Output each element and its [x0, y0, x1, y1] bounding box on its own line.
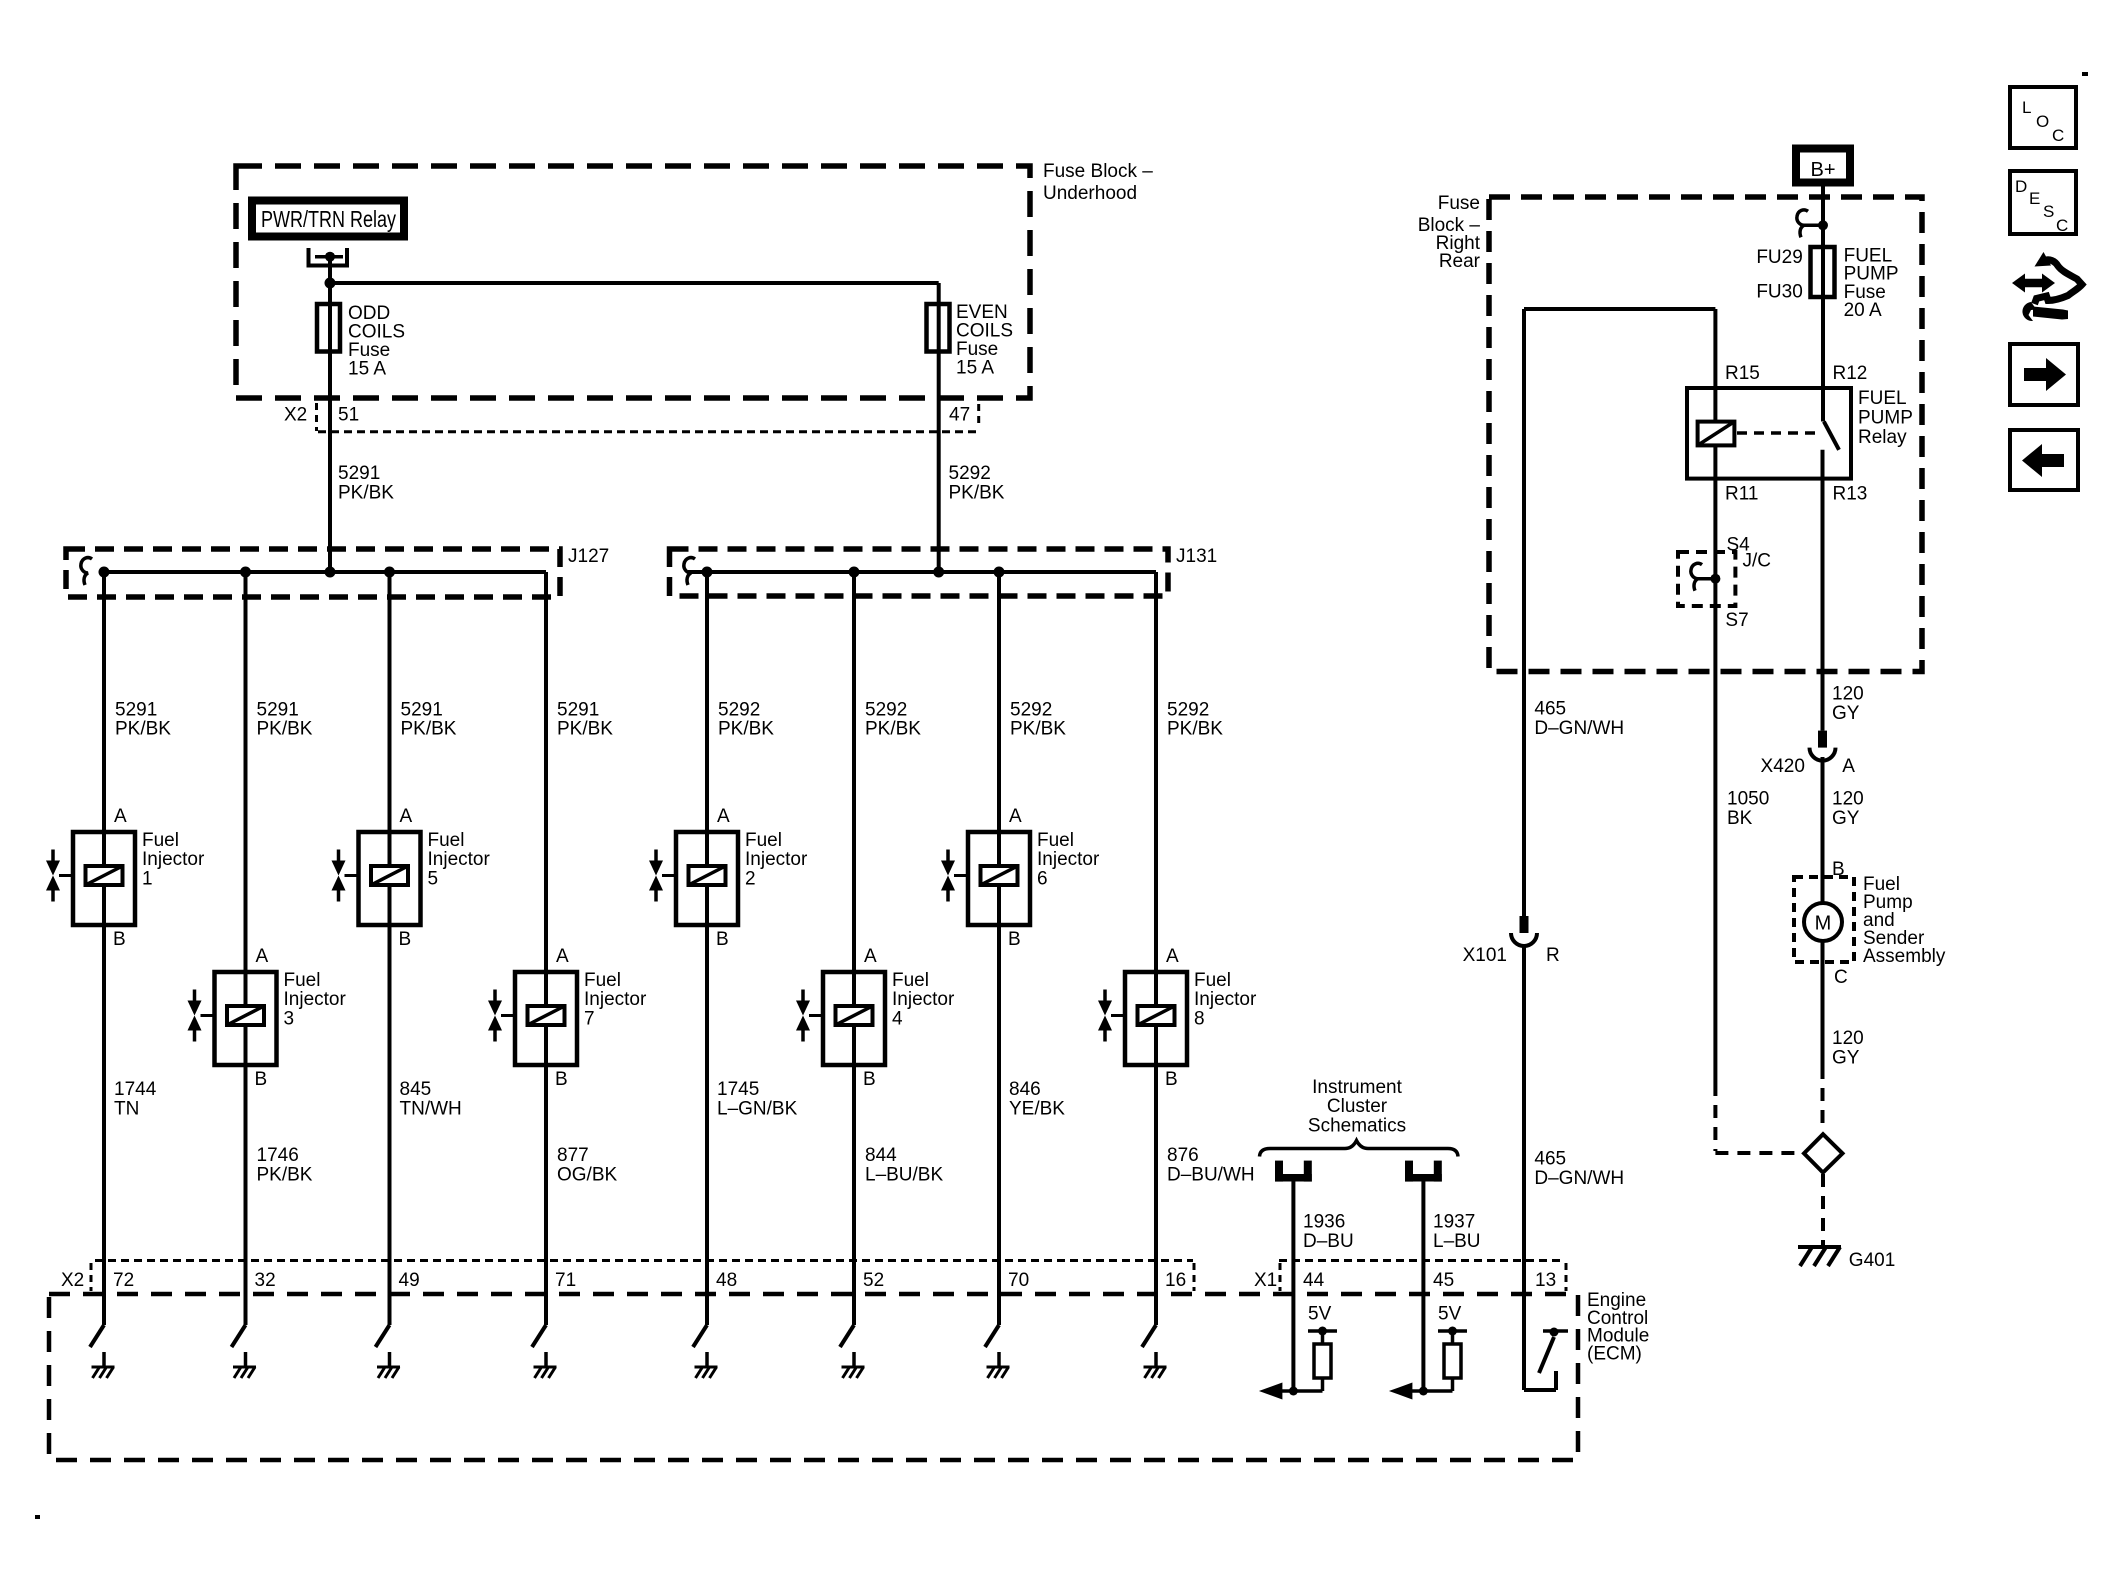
svg-text:B: B — [716, 929, 729, 950]
svg-text:Fuel: Fuel — [584, 970, 621, 991]
svg-text:44: 44 — [1303, 1270, 1325, 1291]
svg-text:PK/BK: PK/BK — [257, 719, 313, 740]
svg-text:PK/BK: PK/BK — [1167, 719, 1223, 740]
svg-text:Assembly: Assembly — [1863, 946, 1946, 967]
svg-text:A: A — [256, 946, 269, 967]
svg-text:5292: 5292 — [865, 700, 907, 721]
svg-text:844: 844 — [865, 1145, 897, 1166]
svg-text:Injector: Injector — [1037, 849, 1100, 870]
svg-text:B: B — [555, 1069, 568, 1090]
svg-text:845: 845 — [400, 1079, 432, 1100]
svg-text:B: B — [255, 1069, 268, 1090]
svg-text:8: 8 — [1194, 1008, 1205, 1029]
svg-text:B+: B+ — [1810, 159, 1835, 181]
svg-text:877: 877 — [557, 1145, 589, 1166]
svg-text:Injector: Injector — [584, 989, 647, 1010]
svg-text:B: B — [1165, 1069, 1178, 1090]
svg-text:A: A — [717, 806, 730, 827]
svg-text:GY: GY — [1832, 808, 1860, 829]
svg-text:6: 6 — [1037, 868, 1048, 889]
svg-text:PK/BK: PK/BK — [557, 719, 613, 740]
svg-text:72: 72 — [113, 1270, 134, 1291]
svg-text:A: A — [864, 946, 877, 967]
svg-text:R15: R15 — [1725, 363, 1760, 384]
svg-text:Fuel: Fuel — [892, 970, 929, 991]
svg-text:5291: 5291 — [338, 463, 380, 484]
svg-text:51: 51 — [338, 405, 359, 426]
svg-text:3: 3 — [284, 1008, 295, 1029]
svg-text:Fuel: Fuel — [142, 830, 179, 851]
svg-text:PK/BK: PK/BK — [115, 719, 171, 740]
svg-text:D–BU: D–BU — [1303, 1231, 1354, 1252]
svg-text:45: 45 — [1433, 1270, 1454, 1291]
svg-text:PK/BK: PK/BK — [257, 1164, 313, 1185]
svg-text:J/C: J/C — [1743, 551, 1772, 572]
svg-text:FU30: FU30 — [1756, 282, 1802, 303]
svg-text:C: C — [1834, 967, 1848, 988]
svg-text:1: 1 — [142, 868, 153, 889]
svg-text:D–GN/WH: D–GN/WH — [1534, 1168, 1624, 1189]
svg-text:465: 465 — [1534, 699, 1566, 720]
svg-text:16: 16 — [1165, 1270, 1186, 1291]
svg-text:BK: BK — [1727, 808, 1753, 829]
svg-text:PK/BK: PK/BK — [718, 719, 774, 740]
svg-text:A: A — [1166, 946, 1179, 967]
svg-text:5V: 5V — [1438, 1304, 1462, 1325]
svg-text:L–BU: L–BU — [1433, 1231, 1481, 1252]
svg-text:A: A — [1009, 806, 1022, 827]
svg-text:D–BU/WH: D–BU/WH — [1167, 1164, 1255, 1185]
svg-text:Fuel: Fuel — [745, 830, 782, 851]
svg-text:X2: X2 — [61, 1270, 84, 1291]
svg-text:FUEL: FUEL — [1858, 388, 1907, 409]
svg-text:A: A — [400, 806, 413, 827]
svg-text:5V: 5V — [1308, 1304, 1332, 1325]
svg-text:TN/WH: TN/WH — [400, 1098, 462, 1119]
svg-text:4: 4 — [892, 1008, 903, 1029]
svg-text:Fuel: Fuel — [1194, 970, 1231, 991]
svg-text:(ECM): (ECM) — [1587, 1343, 1642, 1364]
svg-text:C: C — [2056, 216, 2068, 235]
svg-text:E: E — [2029, 189, 2040, 208]
svg-text:5: 5 — [428, 868, 439, 889]
svg-text:Underhood: Underhood — [1043, 183, 1137, 204]
svg-text:1744: 1744 — [114, 1079, 157, 1100]
svg-text:876: 876 — [1167, 1145, 1199, 1166]
svg-text:J131: J131 — [1176, 546, 1217, 567]
svg-text:YE/BK: YE/BK — [1009, 1098, 1065, 1119]
svg-text:PWR/TRN Relay: PWR/TRN Relay — [261, 206, 396, 232]
svg-text:X2: X2 — [284, 405, 307, 426]
svg-text:Relay: Relay — [1858, 427, 1907, 448]
svg-text:5292: 5292 — [718, 700, 760, 721]
svg-text:1936: 1936 — [1303, 1212, 1345, 1233]
svg-text:B: B — [113, 929, 126, 950]
svg-text:5291: 5291 — [257, 700, 299, 721]
svg-text:1746: 1746 — [257, 1145, 299, 1166]
svg-text:13: 13 — [1535, 1270, 1556, 1291]
svg-text:D: D — [2015, 177, 2027, 196]
svg-text:5291: 5291 — [115, 700, 157, 721]
svg-text:TN: TN — [114, 1098, 139, 1119]
svg-text:R11: R11 — [1725, 484, 1758, 505]
svg-text:O: O — [2036, 112, 2049, 131]
svg-text:32: 32 — [255, 1270, 276, 1291]
svg-text:A: A — [1842, 756, 1855, 777]
svg-text:20 A: 20 A — [1844, 300, 1882, 321]
svg-text:R13: R13 — [1833, 484, 1868, 505]
svg-text:C: C — [2052, 126, 2064, 145]
svg-text:120: 120 — [1832, 1028, 1864, 1049]
svg-text:1745: 1745 — [717, 1079, 759, 1100]
svg-text:X420: X420 — [1761, 756, 1805, 777]
svg-text:PK/BK: PK/BK — [338, 483, 394, 504]
svg-text:71: 71 — [555, 1270, 576, 1291]
svg-text:Rear: Rear — [1439, 251, 1481, 272]
svg-text:120: 120 — [1832, 684, 1864, 705]
svg-text:L: L — [2022, 98, 2031, 117]
svg-text:5291: 5291 — [557, 700, 599, 721]
svg-text:Injector: Injector — [284, 989, 347, 1010]
svg-text:PUMP: PUMP — [1858, 408, 1913, 429]
svg-text:PK/BK: PK/BK — [1010, 719, 1066, 740]
svg-text:Injector: Injector — [745, 849, 808, 870]
svg-text:49: 49 — [399, 1270, 420, 1291]
svg-text:5292: 5292 — [1167, 700, 1209, 721]
svg-text:GY: GY — [1832, 1048, 1860, 1069]
svg-text:Fuse Block –: Fuse Block – — [1043, 161, 1153, 182]
svg-text:PK/BK: PK/BK — [401, 719, 457, 740]
svg-text:1050: 1050 — [1727, 789, 1769, 810]
svg-text:A: A — [114, 806, 127, 827]
svg-text:5292: 5292 — [949, 463, 991, 484]
svg-text:465: 465 — [1534, 1149, 1566, 1170]
svg-text:52: 52 — [863, 1270, 884, 1291]
svg-text:7: 7 — [584, 1008, 595, 1029]
svg-text:120: 120 — [1832, 789, 1864, 810]
svg-text:R12: R12 — [1833, 363, 1868, 384]
svg-text:Fuel: Fuel — [1037, 830, 1074, 851]
svg-text:G401: G401 — [1849, 1250, 1895, 1271]
svg-text:Fuel: Fuel — [284, 970, 321, 991]
svg-text:D–GN/WH: D–GN/WH — [1534, 718, 1624, 739]
svg-text:X1: X1 — [1254, 1270, 1277, 1291]
svg-text:J127: J127 — [568, 546, 609, 567]
svg-text:Schematics: Schematics — [1308, 1116, 1406, 1137]
svg-text:846: 846 — [1009, 1079, 1041, 1100]
svg-text:A: A — [556, 946, 569, 967]
svg-text:Cluster: Cluster — [1327, 1096, 1388, 1117]
svg-text:5292: 5292 — [1010, 700, 1052, 721]
svg-text:2: 2 — [745, 868, 756, 889]
svg-text:S: S — [2043, 202, 2054, 221]
svg-text:X101: X101 — [1463, 945, 1507, 966]
svg-text:Fuel: Fuel — [428, 830, 465, 851]
svg-text:S7: S7 — [1725, 610, 1748, 631]
svg-text:L–GN/BK: L–GN/BK — [717, 1098, 798, 1119]
svg-text:5291: 5291 — [401, 700, 443, 721]
svg-text:OG/BK: OG/BK — [557, 1164, 618, 1185]
svg-text:L–BU/BK: L–BU/BK — [865, 1164, 943, 1185]
svg-text:B: B — [399, 929, 412, 950]
svg-text:B: B — [1008, 929, 1021, 950]
svg-text:15 A: 15 A — [348, 359, 386, 380]
svg-text:PK/BK: PK/BK — [865, 719, 921, 740]
svg-text:48: 48 — [716, 1270, 737, 1291]
svg-text:1937: 1937 — [1433, 1212, 1475, 1233]
svg-text:47: 47 — [949, 405, 970, 426]
svg-text:B: B — [863, 1069, 876, 1090]
svg-text:Injector: Injector — [1194, 989, 1257, 1010]
svg-text:PK/BK: PK/BK — [949, 483, 1005, 504]
svg-text:Injector: Injector — [892, 989, 955, 1010]
svg-text:R: R — [1546, 945, 1560, 966]
svg-text:Injector: Injector — [428, 849, 491, 870]
svg-text:70: 70 — [1008, 1270, 1029, 1291]
svg-text:Injector: Injector — [142, 849, 205, 870]
svg-text:M: M — [1815, 913, 1832, 935]
svg-text:GY: GY — [1832, 703, 1860, 724]
svg-text:FU29: FU29 — [1756, 247, 1802, 268]
svg-text:15 A: 15 A — [956, 358, 994, 379]
svg-text:Instrument: Instrument — [1312, 1077, 1402, 1098]
svg-text:Fuse: Fuse — [1438, 193, 1480, 214]
